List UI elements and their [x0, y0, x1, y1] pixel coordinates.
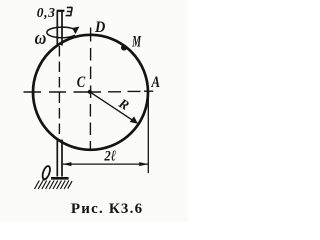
- radius R arrow from C to circle: [91, 92, 133, 120]
- vertical reference line from A down to dimension line: [147, 95, 149, 173]
- svg-text:A: A: [151, 74, 160, 91]
- svg-text:0,3: 0,3: [37, 5, 56, 20]
- label l at bottom rod (script ell loop): [41, 165, 51, 180]
- svg-text:ω: ω: [35, 27, 47, 49]
- svg-text:M: M: [131, 32, 141, 50]
- circle (ring of radius R, center C): [33, 35, 148, 150]
- bottom rod (double line): [57, 140, 62, 177]
- svg-text:C: C: [77, 74, 86, 91]
- glyph epsilon-like at top right of shaft: [66, 7, 73, 15]
- point M (dot on circle): [121, 45, 127, 51]
- svg-text:2ℓ: 2ℓ: [103, 149, 116, 165]
- shaft top cap: [57, 10, 65, 12]
- vertical centerline through C (dashed): [90, 28, 92, 99]
- horizontal centerline through C (dashed): [24, 90, 154, 93]
- point C (center dot): [88, 90, 92, 94]
- svg-text:D: D: [94, 19, 105, 36]
- base plate: [51, 177, 69, 180]
- axis of rotation: dashed line inside circle: [58, 46, 60, 141]
- shaft (top rod, double line): [57, 12, 62, 46]
- ground hatching: [35, 181, 73, 190]
- omega rotation arrow (ellipse around shaft): [47, 27, 76, 38]
- svg-text:Рис. К3.6: Рис. К3.6: [71, 201, 143, 217]
- dimension line 2l: [63, 163, 149, 165]
